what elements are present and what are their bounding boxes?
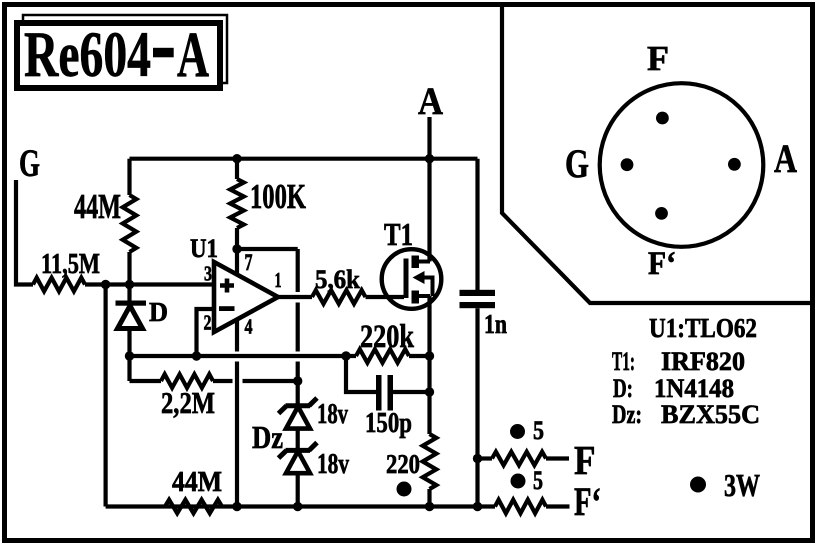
junction source / 220k [425,351,434,360]
wire 220 bottom lead [427,489,431,507]
pin number 2 [204,311,212,335]
label 5,6k [315,265,361,294]
resistor 2,2M [130,374,294,388]
svg-text:3: 3 [204,262,212,286]
wire D anode lead [127,285,131,302]
svg-text:D: D [149,297,168,327]
wire left rail [103,285,107,507]
label 2,2M [161,385,215,420]
transistor T1 [382,249,442,309]
svg-text:4: 4 [245,315,253,339]
label 44M (top) [74,187,121,226]
label 18v (Dz2) [317,449,349,480]
socket label F' [648,246,676,282]
svg-text:F: F [647,39,669,78]
svg-text:150p: 150p [365,407,412,439]
svg-text:44M: 44M [172,466,222,498]
wire pin2 feedback [197,309,215,356]
wire 150p left lead [346,356,376,392]
wire feedback top [237,247,298,251]
tube socket circle [600,83,764,247]
label T1 [384,216,413,252]
svg-text:11,5M: 11,5M [41,248,100,280]
svg-text:1n: 1n [484,309,507,339]
resistor 220 [423,434,437,489]
wire zener bottom lead [296,473,300,506]
svg-text:5: 5 [533,416,544,445]
svg-text:G: G [565,141,589,186]
svg-text:100K: 100K [250,177,306,216]
power dot 220 [397,482,412,497]
svg-text:3W: 3W [724,467,760,503]
parts list T1: IRF820 [612,347,745,376]
wire between zeners [296,429,300,451]
svg-text:5,6k: 5,6k [315,265,361,294]
label D [149,297,168,327]
resistor F' heater 5 [495,500,570,514]
junction F branch [473,454,482,463]
node A label [418,80,443,123]
zener diode Dz2 18v [279,443,318,474]
wire 150p right lead [393,390,430,394]
svg-text:IRF820: IRF820 [661,347,745,376]
svg-text:T1:: T1: [612,347,635,376]
resistor F heater 5 [478,452,570,466]
wire op-amp output [278,295,312,299]
svg-text:U1: U1 [190,234,218,263]
wire G input [16,180,33,285]
svg-text:T1: T1 [384,216,413,252]
wire feedback drop lower [296,362,300,404]
power dot 5 (F) [510,424,525,439]
junction 220 / bottom rail [425,502,434,511]
socket label G [565,141,589,186]
diode D [116,301,147,329]
junction pin2 drop [192,351,201,360]
resistor 5,6k [312,290,366,304]
junction pin4 / bottom rail [232,502,241,511]
svg-text:2: 2 [204,311,212,335]
junction zener / bottom rail [293,502,302,511]
wire 1n branch lower [475,308,479,506]
wire pin3 input [85,282,214,286]
label Dz [252,419,283,455]
svg-text:7: 7 [245,250,253,275]
svg-text:D:: D: [613,374,633,403]
svg-text:1N4148: 1N4148 [654,374,734,403]
label 11,5M [41,248,100,280]
junction 220k left [341,351,350,360]
node G label [19,142,40,185]
svg-text:220: 220 [386,449,420,479]
wire A stub [427,117,431,159]
svg-text:18v: 18v [317,449,349,480]
junction 1n / bottom rail [473,502,482,511]
svg-text:5: 5 [533,466,543,495]
pin number 3 [204,262,212,286]
svg-text:220k: 220k [360,319,415,355]
junction top rail / anode A [425,154,434,163]
resistor 44M (top) [123,195,137,252]
junction source / 150p [425,387,434,396]
zener diode Dz1 18v [279,398,318,429]
parts list U1:TLO62 [649,313,757,343]
svg-text:G: G [19,142,40,185]
wire feedback drop mid [296,303,300,352]
junction top rail / 100K [232,154,241,163]
svg-text:F: F [574,437,596,483]
resistor 44M (bottom) [165,500,222,514]
label 100K [250,177,306,216]
junction D / 356 rail [125,351,134,360]
label 220k [360,319,415,355]
svg-text:Dz:: Dz: [612,400,642,429]
label 5 (F') [533,466,543,495]
pin number 4 [245,315,253,339]
power note 3W [690,467,760,503]
wire pin4 supply upper [235,318,239,352]
svg-text:U1:TLO62: U1:TLO62 [649,313,757,343]
label 150p [365,407,412,439]
wire 44M bottom lead [127,252,131,285]
svg-text:18v: 18v [317,399,348,430]
svg-text:2,2M: 2,2M [161,385,215,420]
label 44M (bottom) [172,466,222,498]
junction 2,2M / zener column [293,376,302,385]
svg-text:A: A [177,19,209,91]
wire D cathode lead [127,329,131,382]
label 220 [386,449,420,479]
pin number 7 [245,250,253,275]
wire top rail [130,157,478,161]
wire 100K top lead [235,159,239,179]
resistor 100K [230,179,244,228]
wire 1n branch upper [475,159,479,290]
pin number 1 [275,268,282,292]
parts list Dz: BZX55C [612,400,760,429]
terminal label F [574,437,596,483]
wire T1 drain [427,159,431,262]
svg-text:A: A [774,136,797,181]
wire feedback drop upper [296,249,300,292]
svg-text:1: 1 [275,268,282,292]
label U1 [190,234,218,263]
junction left rail top [101,280,110,289]
capacitor 150p [376,375,393,411]
parts list D: 1N4148 [613,374,734,403]
wire 100K bottom lead [235,228,239,249]
wire gate lead [366,295,405,299]
tube socket panel outline [502,5,811,303]
socket label F [647,39,669,78]
tube socket pin A [728,158,741,171]
resistor 11,5M [33,278,85,292]
svg-text:BZX55C: BZX55C [661,400,760,429]
svg-text:Dz: Dz [252,419,283,455]
svg-text:A: A [418,80,443,123]
wire pin7 supply [235,249,239,273]
wire bottom rail [106,504,495,508]
capacitor 1n [460,290,496,308]
label 1n [484,309,507,339]
op-amp U1 [214,262,278,332]
wire pin4 supply lower [235,362,239,507]
wire T1 source [427,296,431,434]
svg-text:44M: 44M [74,187,121,226]
junction pin7 node [232,244,241,253]
wire 44M top lead [127,159,131,195]
tube socket pin F [656,112,669,125]
label 18v (Dz1) [317,399,348,430]
svg-text:Re604: Re604 [24,19,151,91]
wire mid rail y356 [130,354,347,358]
junction 44M/D column [125,280,134,289]
title box Re604-A [17,15,227,91]
terminal label F' [574,479,601,524]
svg-text:F‘: F‘ [574,479,601,524]
resistor 220k [346,349,430,363]
power dot 5 (F') [511,474,526,489]
tube socket pin F' [655,207,668,220]
label 5 (F) [533,416,544,445]
tube socket pin G [621,158,634,171]
socket label A [774,136,797,181]
svg-text:F‘: F‘ [648,246,676,282]
